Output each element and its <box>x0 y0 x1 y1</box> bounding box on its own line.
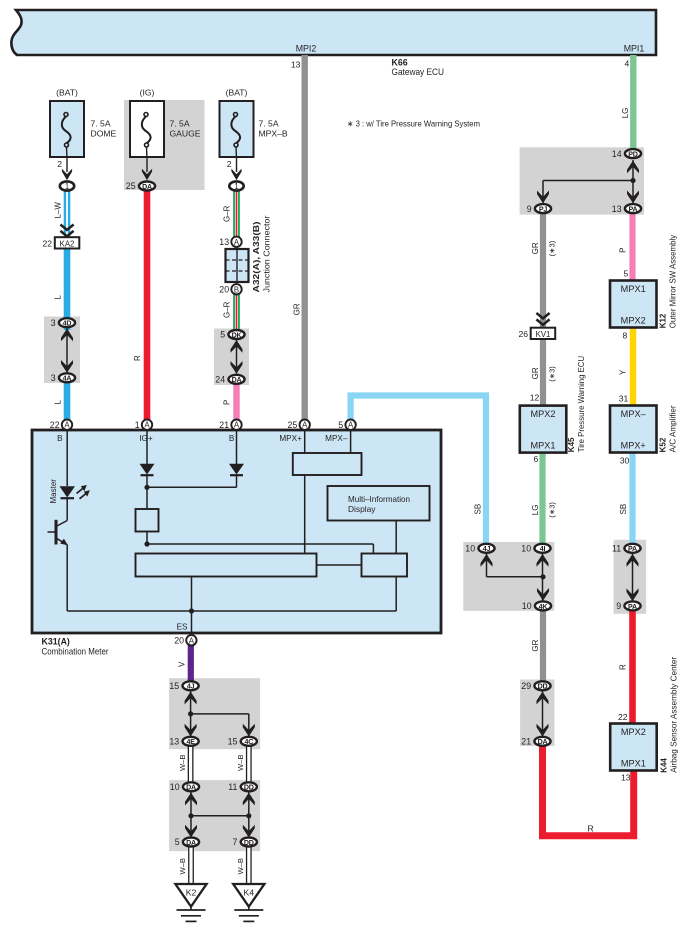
svg-text:5: 5 <box>220 330 225 340</box>
links inside DA/DD bottom panel <box>185 792 255 837</box>
links inside DD/DA right panel <box>537 691 549 736</box>
svg-text:PA: PA <box>629 206 638 214</box>
wire W-B 4C down <box>246 746 252 782</box>
svg-text:DD: DD <box>244 784 254 792</box>
sub block right <box>317 554 408 577</box>
svg-text:4J: 4J <box>483 545 491 553</box>
svg-text:A: A <box>144 421 150 430</box>
svg-text:31: 31 <box>619 394 629 404</box>
gray panel connector DK/DA <box>214 329 249 386</box>
connector PJ 9 <box>527 204 551 214</box>
svg-text:K45: K45 <box>567 437 576 452</box>
svg-text:9: 9 <box>616 601 621 611</box>
svg-text:W–B: W–B <box>236 755 245 771</box>
svg-text:3: 3 <box>51 318 56 328</box>
fuse MPX-B output oval 1 <box>229 181 243 191</box>
combination meter K31(A) box <box>32 430 441 633</box>
svg-text:7. 5A: 7. 5A <box>170 119 190 129</box>
svg-text:DA: DA <box>538 738 548 746</box>
svg-text:GR: GR <box>531 367 540 379</box>
svg-text:LG: LG <box>531 505 540 516</box>
svg-text:Multi–Information: Multi–Information <box>348 494 410 504</box>
svg-text:20: 20 <box>174 636 184 646</box>
wire Y K12 pin 8 to K52 pin 31 <box>630 327 636 407</box>
label K66 Gateway ECU <box>392 58 445 78</box>
svg-text:GR: GR <box>531 242 540 254</box>
svg-text:4D: 4D <box>63 320 72 328</box>
svg-text:A: A <box>302 421 308 430</box>
svg-text:Airbag Sensor Assembly Center: Airbag Sensor Assembly Center <box>670 656 679 772</box>
svg-text:MPX+: MPX+ <box>279 434 302 443</box>
svg-text:MPI1: MPI1 <box>624 44 645 54</box>
svg-text:B: B <box>57 434 63 443</box>
svg-text:5: 5 <box>175 837 180 847</box>
svg-text:MPX2: MPX2 <box>621 316 646 326</box>
svg-text:(IG): (IG) <box>140 88 155 98</box>
links inside 4J/4I/4K panel <box>481 554 550 601</box>
svg-text:11: 11 <box>228 782 237 792</box>
svg-text:13: 13 <box>612 204 622 214</box>
svg-text:Tire Pressure Warning ECU: Tire Pressure Warning ECU <box>577 356 586 453</box>
chevron on L-W wire <box>60 225 73 237</box>
svg-text:DA: DA <box>232 376 242 384</box>
main CPU block <box>136 554 317 577</box>
svg-text:A: A <box>64 421 70 430</box>
junction connector A32(A) A33(B) <box>226 249 249 282</box>
svg-text:L–W: L–W <box>54 202 63 219</box>
svg-text:MPX+: MPX+ <box>621 441 646 451</box>
svg-text:Outer Mirror SW Assembly: Outer Mirror SW Assembly <box>669 235 678 329</box>
wire resistor to bus line <box>144 532 373 554</box>
svg-text:ES: ES <box>177 622 188 631</box>
svg-text:3: 3 <box>51 373 56 383</box>
fuse 7.5A DOME <box>50 101 84 180</box>
svg-text:DA: DA <box>186 784 196 792</box>
K12 labels <box>659 235 678 329</box>
connector DD 7 <box>232 837 256 847</box>
label R on bottom red wire <box>588 824 594 834</box>
svg-text:25: 25 <box>126 181 136 191</box>
svg-text:PJ: PJ <box>539 206 548 214</box>
svg-text:15: 15 <box>228 737 238 747</box>
meter pin A 21 <box>219 420 241 430</box>
svg-text:MPX1: MPX1 <box>531 441 556 451</box>
svg-text:MPX1: MPX1 <box>621 284 646 294</box>
svg-text:21: 21 <box>521 737 531 747</box>
links inside DK/DA panel <box>231 340 243 374</box>
svg-text:24: 24 <box>215 375 225 385</box>
wire V meter pin 20 to 4J <box>188 644 194 683</box>
svg-text:7. 5A: 7. 5A <box>259 119 279 129</box>
connector 4E 13 <box>169 737 198 747</box>
wire LG from MPI1 pin 4 to PD <box>630 55 636 152</box>
connector DK 5 <box>220 330 244 340</box>
svg-text:Combination Meter: Combination Meter <box>42 647 109 657</box>
pin numbers right side <box>291 59 631 783</box>
svg-text:B: B <box>229 434 235 443</box>
connector DD 29 <box>521 681 550 691</box>
meter internal wire pin22 to LED <box>66 430 68 486</box>
ground K4 <box>233 884 264 921</box>
svg-text:B: B <box>234 285 239 294</box>
svg-text:6: 6 <box>534 454 539 464</box>
svg-text:A: A <box>348 421 354 430</box>
svg-text:K12: K12 <box>659 313 668 328</box>
wire diode junction <box>144 485 236 490</box>
svg-text:DA: DA <box>142 183 152 191</box>
wire L-W fuse DOME to KA2 <box>64 190 71 238</box>
svg-text:4J: 4J <box>187 683 195 691</box>
svg-text:8: 8 <box>623 330 628 340</box>
svg-text:MPX1: MPX1 <box>621 759 646 769</box>
svg-text:KV1: KV1 <box>536 330 551 339</box>
svg-text:∗ 3 : w/ Tire Pressure Warning: ∗ 3 : w/ Tire Pressure Warning System <box>347 119 480 129</box>
svg-text:Y: Y <box>619 369 628 375</box>
wire colour labels <box>54 108 630 875</box>
svg-text:22: 22 <box>618 712 628 722</box>
svg-text:W–B: W–B <box>178 858 187 874</box>
svg-text:10: 10 <box>465 544 475 554</box>
svg-text:13: 13 <box>621 772 631 782</box>
svg-text:G–R: G–R <box>223 205 232 222</box>
connector 4C 15 <box>228 737 257 747</box>
connector PA 9 <box>616 601 640 611</box>
svg-text:MPX–: MPX– <box>325 434 348 443</box>
junction pin B 20 <box>219 284 241 294</box>
svg-text:7: 7 <box>232 837 237 847</box>
svg-text:5: 5 <box>338 420 343 430</box>
K45 labels <box>567 356 586 453</box>
svg-text:KA2: KA2 <box>60 239 75 248</box>
svg-text:MPX2: MPX2 <box>621 727 646 737</box>
links inside 4J/4E/4C panel <box>185 691 255 736</box>
svg-text:W–B: W–B <box>178 755 187 771</box>
svg-text:Display: Display <box>348 504 376 514</box>
svg-text:5: 5 <box>624 269 629 279</box>
connector KA2 <box>42 237 79 248</box>
gray panel connector 4D/4A <box>44 317 80 384</box>
gateway ECU K66 bus bar <box>11 10 656 55</box>
svg-text:MPX2: MPX2 <box>531 409 556 419</box>
K44 labels <box>660 656 679 772</box>
svg-text:L: L <box>54 400 63 405</box>
svg-text:(BAT): (BAT) <box>56 88 78 98</box>
fuse 7.5A MPX-B <box>220 101 254 180</box>
svg-text:13: 13 <box>291 59 301 69</box>
connector DA 5 <box>175 837 199 847</box>
links inside PD/PJ/PA panel <box>537 160 639 203</box>
svg-text:K52: K52 <box>659 437 668 452</box>
LED Master indicator <box>60 485 90 499</box>
svg-text:30: 30 <box>620 455 630 465</box>
connector DA 25 under GAUGE <box>126 181 155 191</box>
connector 4A 3 <box>51 373 75 383</box>
transistor Q (meter) <box>48 498 68 611</box>
svg-text:P: P <box>223 400 232 405</box>
svg-text:29: 29 <box>521 681 531 691</box>
gray panel connector 4J/4E/4C <box>169 678 260 749</box>
svg-text:IG+: IG+ <box>139 434 153 443</box>
wire W-B 4E down <box>188 746 194 782</box>
svg-text:20: 20 <box>219 285 229 295</box>
svg-text:25: 25 <box>288 420 298 430</box>
svg-text:K44: K44 <box>660 758 669 773</box>
connector 4J 10 <box>465 544 494 554</box>
svg-text:R: R <box>619 664 628 670</box>
ECU K44 Airbag Sensor Assembly Center <box>610 724 657 771</box>
svg-text:(∗3): (∗3) <box>547 366 556 382</box>
links inside 4D/4A panel <box>61 328 73 373</box>
resistor block under IG+ <box>136 509 159 532</box>
svg-text:DD: DD <box>538 683 548 691</box>
meter pin A 5 <box>338 420 356 430</box>
wire G-R upper segment <box>233 190 240 240</box>
svg-text:13: 13 <box>169 737 179 747</box>
svg-text:A: A <box>234 238 240 247</box>
connector PA 11 <box>612 544 641 554</box>
gray panel connector DD/DA right <box>520 680 554 747</box>
svg-text:4E: 4E <box>186 738 195 746</box>
diode D1 under IG+ <box>140 430 155 509</box>
svg-text:GR: GR <box>531 639 540 651</box>
gray panel behind fuse GAUGE <box>124 100 205 190</box>
svg-text:A: A <box>234 421 240 430</box>
fuse 7.5A GAUGE <box>130 101 164 180</box>
wire W-B DA to ground K2 <box>188 846 194 885</box>
gray panel connector PA/PA <box>614 540 647 614</box>
wire GR from MPI2 pin 13 to meter MPX+ <box>302 55 308 423</box>
svg-text:15: 15 <box>169 681 179 691</box>
svg-text:PD: PD <box>628 151 638 159</box>
svg-text:9: 9 <box>527 204 532 214</box>
wire LG K45 pin 6 to 4I <box>539 451 545 546</box>
svg-text:V: V <box>177 661 186 667</box>
svg-text:14: 14 <box>612 149 622 159</box>
svg-text:SB: SB <box>474 504 483 515</box>
svg-text:10: 10 <box>521 544 531 554</box>
svg-text:21: 21 <box>219 420 229 430</box>
meter pin A 22 <box>50 420 72 430</box>
svg-text:1: 1 <box>234 182 238 191</box>
wire SB K52 pin 30 to PA <box>629 451 635 546</box>
wire G-R junction B to DK <box>233 294 240 332</box>
svg-text:(BAT): (BAT) <box>226 88 248 98</box>
svg-text:Master: Master <box>49 479 58 504</box>
svg-text:K4: K4 <box>244 887 255 897</box>
ground K2 <box>175 884 206 921</box>
connector PA 13 <box>612 204 641 214</box>
svg-text:(∗3): (∗3) <box>547 502 556 518</box>
svg-text:Gateway ECU: Gateway ECU <box>392 67 445 77</box>
MPX transceiver block <box>293 430 362 554</box>
wire GR PJ to KV1 <box>540 212 546 328</box>
fuse labels <box>56 88 247 98</box>
junction connector labels <box>252 215 271 292</box>
wire SB meter MPX- to connector 4J <box>351 396 486 547</box>
svg-text:1: 1 <box>135 420 140 430</box>
svg-text:2: 2 <box>57 159 62 169</box>
svg-text:4K: 4K <box>539 603 549 611</box>
links inside PA/PA panel <box>627 554 639 601</box>
svg-text:22: 22 <box>42 238 52 248</box>
wire R bottom U from DA to K44 pin 13 <box>543 744 634 836</box>
svg-text:MPI2: MPI2 <box>296 44 317 54</box>
label Master <box>49 479 58 504</box>
note tire pressure <box>347 119 480 129</box>
svg-text:(∗3): (∗3) <box>547 240 556 256</box>
svg-text:W–B: W–B <box>236 858 245 874</box>
svg-text:MPX–B: MPX–B <box>259 129 288 139</box>
svg-text:Junction Connector: Junction Connector <box>262 215 271 292</box>
connector 4J 15 <box>169 681 198 691</box>
svg-text:4: 4 <box>625 59 630 69</box>
svg-text:P: P <box>619 248 628 253</box>
connector DA 21 <box>521 737 550 747</box>
svg-text:DD: DD <box>244 839 254 847</box>
svg-text:L: L <box>54 295 63 300</box>
K52 labels <box>659 405 678 452</box>
meter pin A 20 <box>174 635 196 645</box>
connector KV1 <box>518 328 555 339</box>
wire GR KV1 to K45 pin 12 <box>540 339 546 407</box>
svg-text:R: R <box>133 355 142 361</box>
meter pin name labels <box>57 434 348 632</box>
svg-text:DK: DK <box>232 331 243 339</box>
ECU K12 Outer Mirror SW Assembly <box>610 281 657 328</box>
connector PD 14 <box>612 149 641 159</box>
diode D2 under B pin21 <box>229 430 244 487</box>
svg-text:A32(A), A33(B): A32(A), A33(B) <box>252 221 261 292</box>
svg-text:1: 1 <box>65 182 69 191</box>
wire P PA to K12 pin 5 <box>629 212 635 281</box>
svg-text:10: 10 <box>522 601 532 611</box>
connector DA 24 <box>215 375 244 385</box>
wire W-B DD to ground K4 <box>246 846 252 885</box>
ECU K52 A/C Amplifier <box>610 406 657 453</box>
gray panel connector PD/PJ/PA <box>520 147 644 214</box>
svg-text:22: 22 <box>50 420 60 430</box>
wire L KA2 to 4D <box>64 249 71 331</box>
fuse DOME output oval 1 <box>60 181 74 191</box>
svg-text:LG: LG <box>621 108 630 119</box>
svg-text:DA: DA <box>186 839 196 847</box>
svg-text:11: 11 <box>612 544 621 554</box>
svg-text:A/C Amplifier: A/C Amplifier <box>669 405 678 452</box>
svg-text:DOME: DOME <box>91 129 117 139</box>
wire GR 4K to DD <box>540 609 546 683</box>
gray panel connector 4J/4I/4K <box>463 542 554 611</box>
wire L 4A to meter pin 22 <box>64 376 71 423</box>
svg-text:7. 5A: 7. 5A <box>91 119 111 129</box>
meter pin A 1 <box>135 420 153 430</box>
multi-information display block <box>328 486 430 554</box>
ECU K45 Tire Pressure Warning ECU <box>520 406 567 453</box>
svg-text:4A: 4A <box>63 375 72 383</box>
svg-text:R: R <box>588 824 594 834</box>
svg-text:PA: PA <box>628 545 637 553</box>
junction pin A 13 <box>219 237 241 247</box>
connector DA 10 <box>170 782 199 792</box>
svg-text:A: A <box>189 636 195 645</box>
svg-text:K31(A): K31(A) <box>42 636 70 646</box>
connector 4K 10 <box>522 601 551 611</box>
connector DD 11 <box>228 782 257 792</box>
wire R PA to K44 pin 22 <box>629 610 636 725</box>
meter pin A 25 <box>288 420 310 430</box>
svg-text:26: 26 <box>518 329 528 339</box>
svg-text:K2: K2 <box>186 887 197 897</box>
svg-text:4I: 4I <box>540 545 546 553</box>
svg-text:13: 13 <box>219 237 229 247</box>
svg-text:SB: SB <box>619 504 628 515</box>
gray panel connector DA/DD bottom <box>169 780 260 851</box>
svg-text:K66: K66 <box>392 58 408 68</box>
label K31(A) Combination Meter <box>42 636 109 656</box>
connector 4I 10 <box>521 544 550 554</box>
ES node wiring <box>67 577 396 634</box>
connector 4D 3 <box>51 318 75 328</box>
svg-text:GAUGE: GAUGE <box>170 129 201 139</box>
wire P connector DA to meter pin 21 <box>233 376 239 423</box>
svg-text:G–R: G–R <box>223 301 232 318</box>
svg-text:4C: 4C <box>244 738 253 746</box>
svg-text:PA: PA <box>628 603 637 611</box>
chevron on GR wire <box>536 313 549 325</box>
svg-text:MPX–: MPX– <box>621 409 646 419</box>
svg-text:GR: GR <box>293 303 302 315</box>
svg-text:2: 2 <box>227 159 232 169</box>
svg-text:12: 12 <box>530 392 540 402</box>
svg-text:10: 10 <box>170 782 180 792</box>
wire R fuse GAUGE to meter IG+ <box>144 190 151 423</box>
